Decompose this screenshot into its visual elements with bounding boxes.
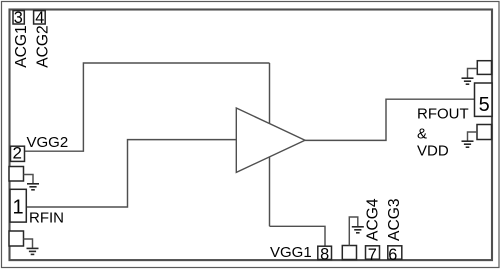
- svg-text:3: 3: [14, 9, 23, 27]
- wire bias rail to VGG1 pin 8: [270, 226, 326, 246]
- svg-text:6: 6: [388, 246, 397, 264]
- svg-text:VGG2: VGG2: [27, 134, 69, 151]
- ground box C (above pin 5): [477, 61, 491, 75]
- svg-text:7: 7: [368, 246, 377, 264]
- wire box A to ground: [24, 175, 34, 184]
- pin 4: [34, 11, 46, 24]
- svg-text:4: 4: [35, 9, 44, 27]
- wire VGG2 to bias rail: [25, 63, 270, 151]
- svg-text:ACG1: ACG1: [13, 25, 30, 67]
- wire bias rail vertical through amp: [269, 63, 271, 226]
- pin 3: [13, 11, 24, 24]
- ground: [27, 248, 39, 254]
- ground: [462, 141, 474, 147]
- pin 7: [366, 246, 380, 259]
- svg-text:ACG4: ACG4: [364, 198, 381, 241]
- svg-text:RFIN: RFIN: [29, 209, 64, 226]
- pin 2: [11, 146, 25, 161]
- wire amp output to RFOUT pin 5: [305, 99, 475, 140]
- ground: [462, 78, 474, 84]
- op-amp U1: [236, 108, 305, 172]
- svg-text:8: 8: [320, 246, 329, 264]
- svg-text:ACG2: ACG2: [35, 25, 52, 67]
- pin 1: [10, 189, 26, 222]
- ground box A (below pin 2): [9, 167, 24, 182]
- pin 8: [318, 246, 332, 259]
- ground box E (bottom middle): [342, 246, 356, 260]
- wire box D to ground: [468, 132, 478, 141]
- svg-text:VGG1: VGG1: [270, 244, 312, 261]
- wire box E to ground: [349, 217, 358, 246]
- ground box D (below pin 5): [477, 125, 492, 140]
- pin 6: [388, 246, 402, 259]
- ground: [27, 184, 39, 190]
- svg-text:5: 5: [479, 94, 490, 116]
- ground: [352, 227, 364, 233]
- svg-text:2: 2: [12, 144, 21, 163]
- svg-text:RFOUT: RFOUT: [417, 106, 469, 123]
- svg-text:ACG3: ACG3: [386, 198, 403, 240]
- wire box B to ground: [24, 239, 33, 248]
- ground box B (below pin 1): [9, 231, 24, 246]
- wire box C to ground: [468, 69, 478, 78]
- svg-text:VDD: VDD: [417, 142, 449, 159]
- svg-text:1: 1: [13, 197, 24, 219]
- wire RFIN to amp input: [27, 140, 237, 207]
- pin 5: [475, 83, 493, 116]
- svg-text:&: &: [417, 126, 427, 143]
